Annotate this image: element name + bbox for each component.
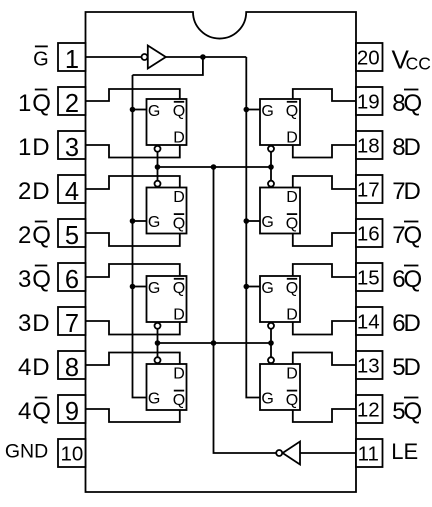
enable bubble right U1 bbox=[268, 146, 274, 152]
svg-text:G: G bbox=[148, 280, 160, 297]
latch U5 (left 3) bbox=[147, 276, 187, 324]
svg-text:2: 2 bbox=[65, 90, 79, 118]
net label 7D bbox=[392, 178, 421, 205]
svg-text:D: D bbox=[32, 354, 49, 381]
wire U9 output to right G bus bbox=[166, 56, 247, 58]
svg-text:G: G bbox=[261, 103, 273, 120]
net label 3D (pin 7) bbox=[18, 310, 50, 337]
svg-text:G: G bbox=[261, 390, 273, 407]
net label 6D bbox=[392, 310, 421, 337]
wire U10 output to LE bus bbox=[214, 167, 276, 453]
wire right G bus to latch U6 G bbox=[246, 286, 260, 288]
net label 5D bbox=[392, 354, 421, 381]
junction dot right G bus 2 bbox=[244, 218, 250, 224]
svg-text:D: D bbox=[173, 189, 185, 206]
wire right G bus vertical bbox=[246, 57, 260, 398]
net label 4D (pin 8) bbox=[18, 354, 50, 381]
svg-text:1: 1 bbox=[65, 46, 79, 74]
wire left G bus vertical bbox=[133, 75, 147, 398]
inverter U9 (G-bar) bbox=[148, 46, 166, 69]
pin 8 box (left) bbox=[58, 351, 86, 382]
junction dot left G bus 2 bbox=[130, 218, 136, 224]
svg-text:10: 10 bbox=[61, 443, 84, 466]
enable bubble left U3 bbox=[155, 181, 161, 187]
wire pin 11 LE input bbox=[300, 452, 356, 454]
wire enable vertical left pair 1 bbox=[157, 152, 159, 181]
junction dot LE bus lower bbox=[211, 340, 217, 346]
enable bubble left U1 bbox=[155, 146, 161, 152]
svg-text:Q: Q bbox=[32, 90, 51, 117]
junction dot enable left pair 2 bbox=[155, 340, 161, 346]
net label 8D bbox=[392, 134, 421, 161]
net label 7Q-bar bbox=[392, 222, 422, 250]
wire pin 6 3Q-bar to U5 Q-bar bbox=[86, 264, 180, 277]
svg-text:Q: Q bbox=[32, 398, 51, 425]
svg-text:Q: Q bbox=[404, 90, 423, 117]
pin 18 box (right) bbox=[356, 131, 383, 159]
latch U4 (right 2) bbox=[260, 188, 300, 234]
inverter U10 (LE) bbox=[283, 442, 300, 465]
svg-text:8: 8 bbox=[65, 354, 79, 382]
svg-text:G: G bbox=[148, 103, 160, 120]
svg-text:D: D bbox=[173, 365, 185, 382]
svg-text:3: 3 bbox=[18, 266, 31, 293]
wire enable vertical right pair 1 bbox=[270, 152, 272, 181]
net label LE (pin 11) bbox=[391, 439, 418, 464]
wire pin 19 8Q-bar to U2 Q-bar bbox=[293, 89, 356, 101]
wire right G bus to latch U2 G bbox=[246, 109, 260, 111]
svg-text:G: G bbox=[33, 49, 49, 71]
svg-text:D: D bbox=[173, 130, 185, 147]
svg-text:D: D bbox=[32, 310, 49, 337]
wire pin 16 7Q-bar to U4 Q-bar bbox=[293, 233, 356, 246]
svg-text:2: 2 bbox=[18, 178, 31, 205]
svg-text:D: D bbox=[404, 354, 421, 381]
svg-text:CC: CC bbox=[406, 54, 431, 74]
svg-text:13: 13 bbox=[357, 355, 380, 378]
svg-text:3: 3 bbox=[65, 134, 79, 162]
pin 1 box (left) bbox=[58, 43, 86, 74]
svg-text:Q: Q bbox=[404, 222, 423, 249]
svg-text:11: 11 bbox=[358, 443, 379, 466]
latch U6 (right 3) bbox=[260, 276, 300, 324]
svg-text:2: 2 bbox=[18, 222, 31, 249]
pin 20 box (right) bbox=[356, 43, 383, 71]
wire to left G bus bbox=[133, 57, 203, 75]
enable bubble left U5 bbox=[155, 323, 161, 329]
svg-text:Q: Q bbox=[286, 215, 298, 232]
wire right G bus to latch U4 G bbox=[246, 220, 260, 222]
wire left G bus to latch U1 G bbox=[133, 109, 147, 111]
pin 6 box (left) bbox=[58, 263, 86, 294]
pin 3 box (left) bbox=[58, 131, 86, 162]
svg-text:18: 18 bbox=[357, 135, 380, 158]
pin 9 box (left) bbox=[58, 395, 86, 426]
junction dot enable right pair 2 bbox=[268, 340, 274, 346]
svg-text:Q: Q bbox=[173, 215, 185, 232]
svg-text:D: D bbox=[173, 307, 185, 324]
svg-text:5: 5 bbox=[65, 222, 79, 250]
svg-text:D: D bbox=[286, 189, 298, 206]
net label 5Q-bar bbox=[392, 398, 422, 426]
wire pin 3 1D to U1 D bbox=[86, 145, 180, 158]
net label G-bar (pin 1) bbox=[33, 46, 49, 70]
svg-text:4: 4 bbox=[65, 178, 79, 206]
svg-text:D: D bbox=[286, 365, 298, 382]
net label 1D (pin 3) bbox=[18, 134, 50, 161]
pin 7 box (left) bbox=[58, 307, 86, 338]
net label 2Q-bar (pin 5) bbox=[18, 222, 51, 250]
net label 3Q-bar (pin 6) bbox=[18, 266, 51, 294]
svg-text:1: 1 bbox=[18, 90, 31, 117]
latch U7 (left 4) bbox=[147, 364, 187, 410]
junction dot left G bus 1 bbox=[130, 107, 136, 113]
pin 4 box (left) bbox=[58, 175, 86, 206]
svg-text:14: 14 bbox=[357, 311, 380, 334]
svg-text:D: D bbox=[404, 178, 421, 205]
svg-text:15: 15 bbox=[357, 267, 380, 290]
svg-text:D: D bbox=[404, 134, 421, 161]
junction dot G-bus split bbox=[200, 54, 206, 60]
enable bubble right U3 bbox=[268, 181, 274, 187]
svg-text:G: G bbox=[148, 214, 160, 231]
svg-text:7: 7 bbox=[65, 310, 79, 338]
junction dot right G bus 3 bbox=[244, 284, 250, 290]
net label 2D (pin 4) bbox=[18, 178, 50, 205]
svg-text:Q: Q bbox=[404, 266, 423, 293]
svg-text:19: 19 bbox=[357, 91, 380, 114]
enable bubble right U7 bbox=[268, 357, 274, 363]
svg-text:1: 1 bbox=[18, 134, 31, 161]
wire pin 13 5D to U6 D bbox=[293, 353, 356, 366]
latch U1 (left 1) bbox=[147, 99, 187, 147]
wire enable tap pair 1 bbox=[158, 166, 272, 168]
wire enable tap pair 2 bbox=[158, 342, 272, 344]
pin 11 box (right) bbox=[356, 439, 383, 467]
junction dot left G bus 3 bbox=[130, 284, 136, 290]
svg-text:D: D bbox=[286, 307, 298, 324]
wire pin 4 2D to U3 D bbox=[86, 176, 180, 189]
svg-text:4: 4 bbox=[18, 398, 31, 425]
svg-text:Q: Q bbox=[173, 103, 185, 120]
inverter U9 input bubble bbox=[142, 54, 148, 60]
net label 8Q-bar bbox=[392, 90, 422, 118]
svg-text:Q: Q bbox=[173, 280, 185, 297]
wire left G bus to latch U3 G bbox=[133, 220, 147, 222]
svg-text:12: 12 bbox=[357, 399, 380, 422]
wire pin 9 4Q-bar to U7 Q-bar bbox=[86, 409, 180, 422]
svg-text:3: 3 bbox=[18, 310, 31, 337]
wire pin 17 7D to U4 D bbox=[293, 176, 356, 189]
svg-text:Q: Q bbox=[32, 266, 51, 293]
svg-text:D: D bbox=[32, 134, 49, 161]
junction dot right G bus 1 bbox=[244, 107, 250, 113]
junction dot enable left pair 1 bbox=[155, 164, 161, 170]
inverter U10 output bubble bbox=[276, 450, 282, 456]
latch U3 (left 2) bbox=[147, 188, 187, 234]
pin 14 box (right) bbox=[356, 307, 383, 335]
wire left G bus to latch U5 G bbox=[133, 286, 147, 288]
enable bubble left U7 bbox=[155, 357, 161, 363]
svg-text:Q: Q bbox=[404, 398, 423, 425]
svg-text:D: D bbox=[404, 310, 421, 337]
net label 1Q-bar (pin 2) bbox=[18, 90, 51, 118]
pin 10 box (left) bbox=[58, 439, 86, 467]
svg-text:6: 6 bbox=[65, 266, 79, 294]
svg-text:G: G bbox=[148, 390, 160, 407]
enable bubble right U5 bbox=[268, 323, 274, 329]
pin 16 box (right) bbox=[356, 219, 383, 247]
svg-text:4: 4 bbox=[18, 354, 31, 381]
latch U2 (right 1) bbox=[260, 99, 300, 147]
svg-text:Q: Q bbox=[286, 103, 298, 120]
wire pin 1 G-bar input bbox=[86, 56, 142, 58]
svg-text:17: 17 bbox=[357, 179, 380, 202]
wire pin 2 1Q-bar to U1 Q-bar bbox=[86, 89, 180, 101]
svg-text:GND: GND bbox=[5, 441, 48, 463]
wire enable vertical left pair 2 bbox=[157, 329, 159, 357]
svg-text:Q: Q bbox=[32, 222, 51, 249]
latch U8 (right 4) bbox=[260, 364, 300, 410]
net label 4Q-bar (pin 9) bbox=[18, 398, 51, 426]
junction dot LE bus upper bbox=[211, 164, 217, 170]
wire pin 18 8D to U2 D bbox=[293, 145, 356, 158]
svg-text:D: D bbox=[286, 130, 298, 147]
net label 6Q-bar bbox=[392, 266, 422, 294]
svg-text:Q: Q bbox=[173, 392, 185, 409]
wire pin 8 4D to U7 D bbox=[86, 353, 180, 366]
IC body outline with pin-1 notch bbox=[86, 12, 357, 492]
junction dot enable right pair 1 bbox=[268, 164, 274, 170]
svg-text:16: 16 bbox=[357, 223, 380, 246]
svg-text:Q: Q bbox=[286, 392, 298, 409]
pin 19 box (right) bbox=[356, 87, 383, 115]
wire pin 5 2Q-bar to U3 Q-bar bbox=[86, 233, 180, 246]
svg-text:9: 9 bbox=[65, 398, 79, 426]
pin 2 box (left) bbox=[58, 87, 86, 118]
wire pin 15 6Q-bar to U6 Q-bar bbox=[293, 264, 356, 277]
svg-text:G: G bbox=[261, 280, 273, 297]
pin 5 box (left) bbox=[58, 219, 86, 250]
pin 12 box (right) bbox=[356, 395, 383, 423]
svg-text:Q: Q bbox=[286, 280, 298, 297]
svg-text:LE: LE bbox=[391, 439, 418, 464]
svg-text:D: D bbox=[32, 178, 49, 205]
pin 17 box (right) bbox=[356, 175, 383, 203]
wire pin 12 5Q-bar to U8 Q-bar bbox=[293, 409, 356, 422]
net label GND (pin 10) bbox=[5, 441, 48, 463]
svg-text:20: 20 bbox=[357, 47, 380, 70]
pin 15 box (right) bbox=[356, 263, 383, 291]
wire enable vertical right pair 2 bbox=[270, 329, 272, 357]
pin 13 box (right) bbox=[356, 351, 383, 379]
net label VCC (pin 20) bbox=[392, 45, 431, 75]
svg-text:G: G bbox=[261, 214, 273, 231]
wire pin 7 3D to U5 D bbox=[86, 321, 180, 335]
wire pin 14 6D to U6 D bbox=[293, 321, 356, 335]
